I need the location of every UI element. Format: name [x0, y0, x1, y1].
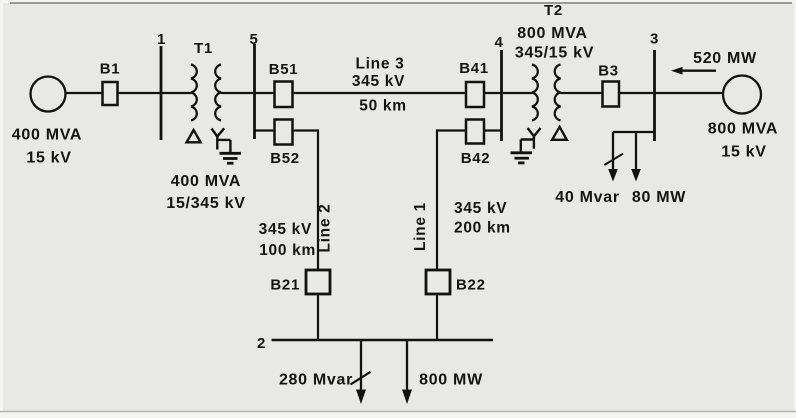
- svg-text:1: 1: [157, 31, 166, 48]
- svg-text:15 kV: 15 kV: [721, 143, 766, 160]
- wire T2 to B3: [561, 92, 603, 94]
- svg-text:345/15 kV: 345/15 kV: [515, 44, 594, 61]
- svg-text:15 kV: 15 kV: [26, 150, 71, 167]
- breaker B22: [426, 270, 450, 294]
- wire Line 3 (B51 to B41): [293, 92, 467, 94]
- svg-text:Line 2: Line 2: [317, 204, 334, 253]
- generator G1 (400 MVA 15 kV): [31, 77, 66, 112]
- svg-text:B41: B41: [459, 60, 489, 77]
- svg-text:2: 2: [257, 335, 266, 352]
- wye symbol (T1 secondary): [212, 128, 231, 152]
- svg-text:345 kV: 345 kV: [352, 73, 405, 90]
- svg-text:800 MVA: 800 MVA: [517, 25, 587, 42]
- load arrow 800 MW: [402, 390, 412, 405]
- breaker B3: [603, 82, 620, 107]
- svg-text:400 MVA: 400 MVA: [12, 127, 82, 144]
- svg-text:800 MVA: 800 MVA: [708, 120, 778, 137]
- load feeder 280 Mvar: [360, 340, 362, 390]
- wire B3 to bus 3 to G2: [619, 92, 723, 94]
- wye symbol (T2 primary): [521, 128, 541, 152]
- svg-text:B51: B51: [269, 61, 299, 78]
- svg-text:345 kV: 345 kV: [259, 221, 312, 238]
- breaker B41: [466, 82, 484, 107]
- breaker B42: [466, 120, 484, 144]
- wire B41 to bus 4 to T2: [484, 92, 532, 94]
- svg-text:520 MW: 520 MW: [693, 50, 757, 67]
- svg-text:B42: B42: [461, 150, 491, 167]
- svg-text:B22: B22: [456, 277, 486, 294]
- wire B21 to bus 2: [317, 294, 319, 340]
- bus 3: [653, 50, 656, 141]
- load arrow 280 Mvar: [356, 390, 366, 405]
- svg-text:400 MVA: 400 MVA: [171, 173, 241, 190]
- svg-text:50 km: 50 km: [359, 97, 406, 114]
- load arrow 80 MW: [631, 169, 641, 182]
- bus 5: [253, 44, 256, 139]
- bus 1: [160, 46, 163, 140]
- arrow 520 MW into bus 3: [671, 67, 716, 75]
- breaker B51: [275, 82, 293, 108]
- svg-text:T2: T2: [544, 2, 563, 19]
- transformer T2 secondary winding: [555, 65, 561, 121]
- svg-text:5: 5: [249, 31, 258, 48]
- svg-text:Line 1: Line 1: [412, 202, 429, 251]
- delta symbol (T2 secondary): [552, 127, 567, 140]
- transformer T1 secondary winding: [215, 65, 221, 121]
- wire load tap on bus 3: [613, 132, 655, 170]
- svg-text:3: 3: [650, 31, 659, 48]
- svg-text:Line 3: Line 3: [356, 55, 405, 72]
- wire Line 1 corner to B42: [437, 131, 466, 271]
- svg-text:200 km: 200 km: [454, 219, 511, 236]
- wire B52 to Line 2 corner: [293, 131, 319, 271]
- svg-text:40 Mvar: 40 Mvar: [555, 189, 620, 206]
- wire G1 to B1: [66, 92, 103, 94]
- svg-text:345 kV: 345 kV: [454, 200, 507, 217]
- ground (T2 neutral): [511, 153, 533, 163]
- svg-text:4: 4: [494, 34, 503, 51]
- breaker B52: [275, 120, 293, 145]
- wire B1 to T1: [118, 92, 191, 94]
- breaker B21: [306, 270, 330, 294]
- svg-text:15/345 kV: 15/345 kV: [166, 195, 245, 212]
- svg-text:B1: B1: [100, 61, 121, 78]
- slash on 40 Mvar feeder: [604, 154, 623, 165]
- svg-text:B3: B3: [598, 63, 619, 80]
- bus 4: [500, 50, 503, 141]
- svg-text:280 Mvar: 280 Mvar: [279, 371, 353, 388]
- breaker B1: [103, 82, 118, 105]
- delta symbol (T1 primary): [187, 130, 201, 142]
- ground (T1 neutral): [220, 153, 242, 163]
- svg-text:B52: B52: [270, 150, 300, 167]
- svg-text:80 MW: 80 MW: [632, 189, 686, 206]
- transformer T2 primary winding: [532, 65, 538, 121]
- wire T1 to bus 5 and breaker B51: [221, 92, 274, 94]
- bus 2: [272, 339, 494, 342]
- svg-text:T1: T1: [194, 40, 213, 57]
- load feeder 800 MW: [406, 340, 408, 390]
- load arrow 40 Mvar: [608, 169, 618, 182]
- svg-text:100 km: 100 km: [259, 242, 316, 259]
- wire B22 to bus 2: [436, 294, 438, 340]
- svg-text:B21: B21: [270, 277, 300, 294]
- wire bus 5 to B52: [255, 129, 275, 131]
- svg-text:800 MW: 800 MW: [419, 371, 483, 388]
- wire B42 to bus 4: [484, 129, 502, 131]
- slash on 280 Mvar feeder: [351, 372, 371, 385]
- transformer T1 primary winding: [191, 65, 197, 121]
- generator G2 (800 MVA 15 kV): [723, 76, 761, 114]
